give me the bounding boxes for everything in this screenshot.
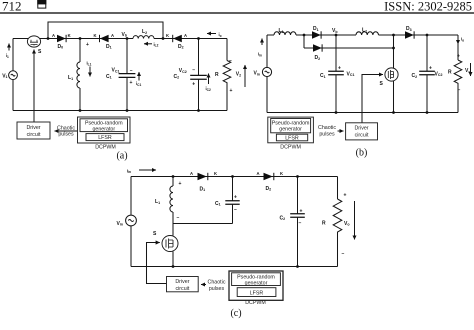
svg-text:C1: C1 bbox=[106, 74, 112, 80]
svg-text:Driver: Driver bbox=[26, 125, 40, 131]
svg-text:iL1: iL1 bbox=[87, 61, 92, 67]
svg-text:–: – bbox=[458, 88, 461, 94]
svg-text:V1: V1 bbox=[2, 73, 7, 79]
svg-text:K: K bbox=[68, 33, 71, 38]
svg-text:Driver: Driver bbox=[354, 126, 368, 132]
svg-text:D0: D0 bbox=[58, 44, 64, 50]
svg-text:i1: i1 bbox=[6, 53, 9, 59]
svg-text:pulses: pulses bbox=[58, 132, 74, 138]
svg-text:L1: L1 bbox=[279, 28, 284, 34]
svg-text:C1: C1 bbox=[320, 73, 326, 79]
svg-text:–: – bbox=[130, 68, 133, 74]
svg-text:ISSN: 2302-9285: ISSN: 2302-9285 bbox=[384, 0, 472, 14]
svg-text:K: K bbox=[214, 171, 217, 176]
svg-text:–: – bbox=[342, 251, 345, 257]
svg-text:Vo: Vo bbox=[344, 221, 350, 227]
svg-text:Iin: Iin bbox=[127, 168, 131, 174]
svg-text:Pseudo-random: Pseudo-random bbox=[237, 275, 275, 281]
svg-text:LFSR: LFSR bbox=[285, 136, 299, 142]
svg-text:V2: V2 bbox=[236, 72, 241, 78]
svg-text:VC2: VC2 bbox=[435, 71, 443, 77]
svg-text:LFSR: LFSR bbox=[250, 291, 264, 297]
svg-text:D3: D3 bbox=[406, 26, 412, 32]
svg-text:(c): (c) bbox=[230, 308, 241, 319]
svg-text:C1: C1 bbox=[215, 201, 221, 207]
svg-text:Pseudo-random: Pseudo-random bbox=[272, 121, 310, 127]
svg-text:D2: D2 bbox=[315, 55, 321, 61]
svg-text:L1: L1 bbox=[155, 199, 160, 205]
svg-text:iC1: iC1 bbox=[136, 81, 141, 87]
svg-text:DCPWM: DCPWM bbox=[245, 300, 266, 306]
svg-text:K: K bbox=[280, 171, 283, 176]
svg-text:VC1: VC1 bbox=[347, 71, 355, 77]
svg-text:Driver: Driver bbox=[175, 279, 189, 285]
svg-text:+: + bbox=[192, 82, 195, 88]
svg-text:+: + bbox=[300, 208, 303, 214]
svg-text:VC2: VC2 bbox=[179, 68, 187, 74]
svg-text:+: + bbox=[230, 88, 233, 94]
svg-text:D2: D2 bbox=[266, 186, 272, 192]
svg-text:iC2: iC2 bbox=[206, 86, 211, 92]
svg-text:L2: L2 bbox=[142, 29, 147, 35]
svg-text:VC1: VC1 bbox=[112, 68, 120, 74]
svg-text:A: A bbox=[111, 33, 114, 38]
svg-text:iin: iin bbox=[258, 52, 262, 58]
svg-text:+: + bbox=[429, 66, 432, 72]
svg-text:Chaotic: Chaotic bbox=[57, 125, 75, 131]
svg-text:DCPWM: DCPWM bbox=[280, 144, 301, 150]
svg-text:Chaotic: Chaotic bbox=[208, 279, 226, 285]
svg-text:–: – bbox=[177, 215, 180, 221]
svg-text:S: S bbox=[38, 49, 42, 55]
svg-text:Chaotic: Chaotic bbox=[318, 125, 336, 131]
svg-text:io: io bbox=[219, 32, 222, 38]
svg-text:iL2: iL2 bbox=[154, 42, 159, 48]
svg-text:A: A bbox=[190, 171, 193, 176]
svg-text:L2: L2 bbox=[362, 28, 367, 34]
svg-text:–: – bbox=[229, 58, 232, 64]
svg-text:circuit: circuit bbox=[27, 132, 41, 138]
svg-text:–: – bbox=[234, 207, 237, 213]
svg-text:pulses: pulses bbox=[319, 131, 335, 137]
svg-text:A: A bbox=[184, 33, 187, 38]
svg-text:A: A bbox=[257, 171, 260, 176]
svg-text:C2: C2 bbox=[174, 74, 180, 80]
svg-text:S: S bbox=[153, 231, 157, 237]
svg-text:C2: C2 bbox=[280, 215, 286, 221]
svg-text:+: + bbox=[179, 181, 182, 187]
svg-text:+: + bbox=[344, 193, 347, 199]
svg-text:+: + bbox=[457, 54, 460, 60]
svg-text:+: + bbox=[130, 80, 133, 86]
svg-text:+: + bbox=[234, 195, 237, 201]
svg-text:D1: D1 bbox=[313, 26, 319, 32]
svg-text:circuit: circuit bbox=[175, 286, 189, 292]
svg-text:S: S bbox=[380, 81, 384, 87]
svg-text:io: io bbox=[461, 37, 464, 43]
svg-text:C2: C2 bbox=[412, 73, 418, 79]
svg-text:(b): (b) bbox=[356, 148, 368, 159]
svg-text:L1: L1 bbox=[68, 75, 73, 81]
svg-text:+: + bbox=[86, 42, 89, 48]
svg-text:–: – bbox=[299, 220, 302, 226]
svg-text:K: K bbox=[166, 33, 169, 38]
svg-text:–: – bbox=[192, 68, 195, 74]
svg-text:LFSR: LFSR bbox=[98, 135, 112, 141]
svg-text:DCPWM: DCPWM bbox=[95, 145, 116, 151]
svg-text:generator: generator bbox=[92, 126, 115, 132]
svg-text:circuit: circuit bbox=[355, 133, 369, 139]
svg-text:R: R bbox=[322, 221, 326, 227]
svg-text:Vin: Vin bbox=[254, 71, 261, 77]
svg-text:pulses: pulses bbox=[209, 286, 225, 292]
svg-text:Vin: Vin bbox=[117, 221, 124, 227]
svg-text:R: R bbox=[448, 70, 452, 76]
svg-text:712: 712 bbox=[2, 0, 22, 14]
svg-text:generator: generator bbox=[279, 127, 302, 133]
svg-text:+: + bbox=[338, 66, 341, 72]
svg-text:D1: D1 bbox=[200, 186, 206, 192]
svg-text:Vb: Vb bbox=[122, 32, 128, 38]
svg-text:R: R bbox=[215, 72, 219, 78]
svg-text:K: K bbox=[94, 33, 97, 38]
svg-text:D2: D2 bbox=[178, 44, 184, 50]
svg-text:A: A bbox=[52, 33, 55, 38]
svg-text:Vb: Vb bbox=[332, 28, 338, 34]
svg-text:generator: generator bbox=[245, 281, 268, 287]
svg-text:D1: D1 bbox=[106, 44, 112, 50]
svg-text:(a): (a) bbox=[116, 151, 127, 162]
